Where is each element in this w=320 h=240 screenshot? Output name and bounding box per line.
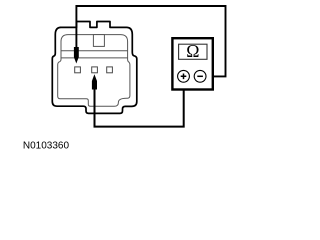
wire from ohmmeter negative lead to pin 1 [76,6,225,76]
connector C1 outer housing outline [52,22,137,114]
negative terminal [194,70,206,82]
svg-text:N0103360: N0103360 [23,140,70,151]
probe arrow down at pin 1 [74,47,79,64]
ohmmeter body [172,38,212,89]
ohmmeter display window [179,44,207,59]
inner shelf line upper [61,50,128,52]
positive terminal [178,70,190,82]
inner shelf line lower [61,57,128,59]
pin 2 [92,67,98,73]
wire from pin 2 to ohmmeter positive lead [95,83,184,127]
pin 3 [107,67,113,73]
svg-text:Ω: Ω [186,41,199,61]
pin 1 [75,67,81,73]
latch slot [93,35,104,47]
probe arrow up at pin 2 [92,74,97,89]
connector inner cavity outline [58,35,130,107]
